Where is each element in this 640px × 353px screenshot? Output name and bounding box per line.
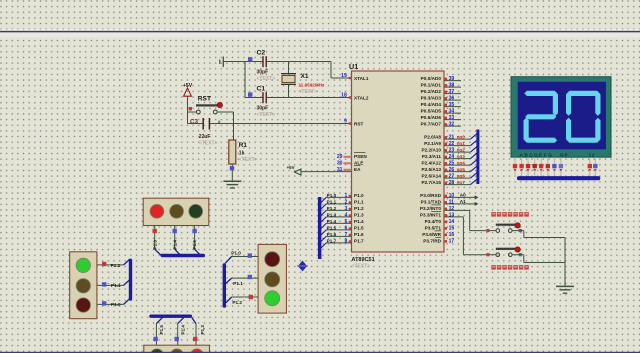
pin state squares TL-south [153, 337, 197, 341]
U1 pin 36 P0.3 stub [444, 96, 461, 102]
svg-text:12: 12 [589, 152, 596, 157]
display DS1 frame [511, 77, 611, 158]
display digit-select pins 1 2 [588, 157, 598, 176]
svg-text:P0.2/AD2: P0.2/AD2 [421, 89, 442, 94]
svg-text:P1.1: P1.1 [233, 281, 243, 286]
label S1 chinese red text [491, 212, 529, 217]
U1 pin 38 P0.1 stub [444, 83, 461, 89]
U1 pin 39 P0.0 stub [444, 76, 461, 82]
svg-text:39: 39 [449, 76, 455, 82]
wires TL-west to bus [97, 259, 130, 304]
U1 pin 1 P1.0 wire and label [321, 193, 352, 203]
ground (crystal circuit) [220, 57, 224, 68]
svg-text:11: 11 [449, 200, 455, 206]
svg-text:P0.3/AD3: P0.3/AD3 [421, 96, 442, 101]
svg-text:<TEXT>: <TEXT> [352, 264, 371, 270]
svg-text:RST: RST [354, 122, 364, 127]
traffic light TL-west body [70, 252, 97, 319]
junction R1 pin [230, 166, 234, 170]
svg-text:P2.3/A11: P2.3/A11 [422, 154, 442, 159]
wires TL-north to bus [155, 226, 201, 256]
svg-text:DP: DP [560, 152, 569, 157]
wire S2 to ground rail [512, 255, 565, 263]
svg-text:11.0592MHz: 11.0592MHz [299, 83, 325, 88]
wires TL-east to bus [225, 257, 258, 304]
svg-text:X1: X1 [301, 73, 309, 80]
wire button to RST node [217, 112, 233, 140]
wire R1 to ground [231, 164, 233, 181]
svg-text:28: 28 [449, 180, 455, 186]
svg-text:30pF: 30pF [257, 70, 269, 76]
svg-text:P1.6: P1.6 [354, 232, 364, 237]
U1 pins 29 30 31 PSEN ALE EA [337, 154, 352, 173]
capacitor C2 [257, 49, 276, 82]
svg-text:25: 25 [449, 161, 455, 167]
U1 pin 13 P3.3 wire to button S2 [444, 213, 486, 255]
svg-text:XTAL1: XTAL1 [354, 76, 369, 81]
svg-text:C3: C3 [190, 118, 198, 125]
svg-text:<TEXT>: <TEXT> [257, 76, 276, 82]
U1 pin 24 P2.3 stub, net label ng3 [444, 153, 477, 160]
U1 pin 12 P3.2 wire to button S1 [444, 206, 486, 230]
junction C2 pin [248, 57, 252, 61]
net labels TL-north P1.3 P1.4 P1.5 [152, 240, 197, 250]
capacitor C3 [190, 118, 221, 147]
button RST [189, 96, 223, 114]
svg-text:21: 21 [449, 135, 455, 141]
U1 pin 35 P0.4 stub [444, 102, 461, 108]
svg-text:P1.0: P1.0 [354, 193, 364, 198]
svg-text:P2.5/A13: P2.5/A13 [421, 167, 441, 172]
svg-text:AT89C51: AT89C51 [352, 257, 375, 263]
U1 pin 28 P2.7 stub, net label ng7 [444, 179, 477, 186]
svg-text:29: 29 [337, 154, 343, 160]
svg-text:P3.1/TXD: P3.1/TXD [421, 200, 442, 205]
U1 pin 21 P2.0 stub, net label ng0 [444, 133, 477, 140]
bus TL-north [161, 254, 205, 257]
svg-text:30: 30 [337, 161, 343, 167]
U1 pin 3 P1.2 wire and label [321, 206, 352, 216]
svg-text:P1.4: P1.4 [327, 219, 337, 224]
bus junction marker [297, 261, 308, 272]
bus P2 [476, 130, 479, 185]
svg-text:ng2: ng2 [457, 148, 466, 153]
wire C1 to XTAL2 [266, 97, 351, 99]
net labels TL-south P1.5 P1.4 P1.3 [159, 325, 205, 335]
svg-text:P1.2: P1.2 [232, 300, 242, 305]
U1 pin 22 P2.1 stub, net label ng1 [444, 140, 477, 147]
svg-text:5: 5 [344, 219, 347, 225]
traffic light TL-east body [258, 244, 286, 313]
svg-text:ng3: ng3 [457, 154, 466, 159]
svg-text:P0.7/AD7: P0.7/AD7 [421, 122, 442, 127]
svg-text:19: 19 [341, 73, 347, 79]
U1 pin 7 P1.6 wire and label [321, 232, 352, 242]
U1 pin 23 P2.2 stub, net label ng2 [444, 146, 477, 153]
svg-text:ng1: ng1 [457, 141, 466, 146]
svg-text:C2: C2 [257, 49, 266, 56]
svg-text:P2.2/A10: P2.2/A10 [421, 148, 441, 153]
svg-text:33: 33 [449, 115, 455, 121]
bus TL-west [129, 259, 132, 301]
svg-text:34: 34 [449, 109, 455, 115]
svg-text:ng0: ng0 [457, 135, 466, 140]
bus P1 [318, 197, 322, 259]
svg-text:P3.4/T0: P3.4/T0 [425, 219, 442, 224]
svg-text:2: 2 [344, 200, 347, 206]
svg-text:P1.2: P1.2 [327, 206, 337, 211]
svg-text:P1.7: P1.7 [354, 239, 364, 244]
svg-text:12: 12 [449, 206, 455, 212]
svg-text:ng6: ng6 [457, 174, 466, 179]
svg-text:ALE: ALE [354, 161, 363, 166]
display segment letters text [520, 152, 596, 157]
display segment pins [513, 157, 563, 176]
svg-text:38: 38 [449, 83, 455, 89]
U1 pin 16 P3.6 stub [445, 232, 455, 238]
wire ground branch down [245, 62, 263, 98]
svg-text:P1.7: P1.7 [327, 238, 337, 243]
svg-text:18: 18 [341, 93, 347, 99]
svg-text:P0.5/AD5: P0.5/AD5 [421, 109, 442, 114]
svg-text:P1.4: P1.4 [354, 219, 364, 224]
pin state squares TL-north [153, 229, 197, 233]
svg-text:<TEXT>: <TEXT> [299, 89, 318, 95]
svg-text:8: 8 [344, 239, 347, 245]
traffic light TL-south body [144, 345, 210, 353]
U1 pin 2 P1.1 wire and label [321, 199, 352, 209]
svg-text:P3.5/T1: P3.5/T1 [425, 226, 442, 231]
svg-text:<TEXT>: <TEXT> [199, 141, 218, 147]
svg-text:14: 14 [449, 219, 455, 225]
U1 pin 18 XTAL2 [341, 93, 351, 99]
svg-text:+5V: +5V [287, 165, 295, 170]
svg-text:ng4: ng4 [457, 161, 466, 166]
svg-text:4: 4 [344, 213, 347, 219]
capacitor C1 [257, 85, 276, 118]
pin state squares TL-east [248, 253, 253, 299]
U1 pin 6 P1.5 wire and label [321, 225, 352, 235]
svg-text:P1.1: P1.1 [327, 199, 337, 204]
svg-text:P0.6/AD6: P0.6/AD6 [421, 115, 442, 120]
svg-text:P1.1: P1.1 [354, 200, 364, 205]
svg-text:+5V: +5V [183, 83, 193, 89]
wire +5V to EA [301, 171, 351, 173]
svg-text:P3.0/RXD: P3.0/RXD [420, 193, 441, 198]
U1 pin 25 P2.4 stub, net label ng4 [444, 159, 477, 166]
svg-text:ABCDEFG: ABCDEFG [520, 152, 554, 157]
label S2 chinese red text [491, 265, 529, 270]
U1 pin 8 P1.7 wire and label [321, 238, 352, 248]
power +5V (EA pin) [287, 165, 301, 175]
svg-text:26: 26 [449, 167, 455, 173]
display digit 0 [566, 91, 601, 143]
U1 pin 9 RST [344, 119, 351, 125]
U1 pin 15 P3.5 stub [445, 226, 455, 232]
svg-text:XTAL2: XTAL2 [354, 96, 369, 101]
svg-text:P1.1: P1.1 [111, 283, 121, 288]
net labels TL-west P1.2 P1.1 P1.0 [111, 263, 121, 307]
svg-text:31: 31 [337, 167, 343, 173]
svg-text:P1.6: P1.6 [327, 232, 337, 237]
svg-text:P0.0/AD0: P0.0/AD0 [421, 76, 442, 81]
svg-text:10: 10 [449, 193, 455, 199]
button S1 (east-west stop) [486, 223, 522, 233]
svg-text:U1: U1 [349, 62, 358, 71]
svg-text:9: 9 [344, 119, 347, 125]
svg-text:P1.3: P1.3 [200, 325, 205, 335]
U1 pin names [354, 76, 442, 244]
svg-text:7: 7 [344, 232, 347, 238]
svg-text:1: 1 [344, 193, 347, 199]
svg-text:P2.0/A8: P2.0/A8 [424, 135, 441, 140]
U1 pin 27 P2.6 stub, net label ng6 [444, 172, 477, 179]
svg-text:22uF: 22uF [199, 134, 211, 140]
svg-text:24: 24 [449, 154, 455, 160]
ground (reset) [223, 181, 241, 188]
svg-text:P0.1/AD1: P0.1/AD1 [421, 83, 442, 88]
wire ground to C2 [223, 61, 262, 63]
U1 pin 10 P3.0 wire A0 [444, 193, 479, 200]
IC U1 AT89C51 body [349, 62, 444, 270]
svg-text:P1.0: P1.0 [231, 251, 241, 256]
U1 pin 4 P1.3 wire and label [321, 212, 352, 222]
junction C1 pin [248, 92, 252, 96]
svg-text:P1.5: P1.5 [327, 225, 337, 230]
svg-text:P1.5: P1.5 [159, 325, 164, 335]
svg-text:32: 32 [449, 122, 455, 128]
bus TL-south [149, 315, 192, 318]
svg-text:EA: EA [354, 167, 361, 172]
U1 pin 32 P0.7 stub [444, 122, 461, 128]
U1 pin 11 P3.1 wire A1 [444, 199, 479, 206]
svg-text:P1.3: P1.3 [354, 213, 364, 218]
svg-text:P1.3: P1.3 [327, 212, 337, 217]
svg-text:37: 37 [449, 89, 455, 95]
wire ground rail vertical [564, 238, 566, 287]
svg-text:16: 16 [449, 232, 455, 238]
power +5V (reset) [183, 83, 193, 112]
svg-text:P3.3/INT1: P3.3/INT1 [420, 213, 441, 218]
display digit 2 [524, 91, 559, 143]
svg-text:A0: A0 [460, 193, 466, 198]
wires TL-south [156, 318, 196, 347]
wire C2 to XTAL1 corner [266, 62, 351, 79]
svg-text:6: 6 [344, 226, 347, 232]
U1 pin 19 XTAL1 [341, 73, 351, 79]
svg-text:22: 22 [449, 141, 455, 147]
svg-text:<TEXT>: <TEXT> [257, 112, 276, 118]
U1 pin 34 P0.5 stub [444, 109, 461, 115]
wire C3 to RST pin [210, 123, 352, 125]
U1 pin 14 P3.4 stub [445, 219, 455, 225]
bus under display [517, 176, 600, 180]
svg-text:P3.2/INT0: P3.2/INT0 [420, 206, 441, 211]
svg-text:R1: R1 [239, 142, 248, 149]
svg-text:P1.4: P1.4 [172, 240, 177, 250]
ground (buttons) [556, 286, 574, 293]
resistor R1 [229, 140, 258, 164]
svg-text:3: 3 [344, 206, 347, 212]
svg-text:A1: A1 [460, 199, 466, 204]
svg-text:30pF: 30pF [257, 106, 269, 112]
U1 pin 26 P2.5 stub, net label ng5 [444, 166, 477, 173]
svg-text:P1.0: P1.0 [327, 193, 337, 198]
svg-text:RST: RST [198, 96, 211, 103]
svg-text:P1.2: P1.2 [354, 206, 364, 211]
svg-text:P1.0: P1.0 [111, 302, 121, 307]
svg-text:36: 36 [449, 96, 455, 102]
svg-text:P0.4/AD4: P0.4/AD4 [421, 102, 442, 107]
crystal X1 [281, 62, 325, 98]
svg-text:P1.3: P1.3 [152, 240, 157, 250]
svg-text:17: 17 [449, 239, 455, 245]
svg-text:P3.6/WR: P3.6/WR [422, 232, 441, 237]
bus TL-east [223, 263, 226, 307]
svg-text:13: 13 [449, 213, 455, 219]
U1 pin 17 P3.7 stub [445, 239, 455, 245]
svg-text:1k: 1k [239, 150, 245, 156]
svg-text:C1: C1 [257, 85, 266, 92]
svg-text:P1.2: P1.2 [111, 263, 121, 268]
svg-text:PSEN: PSEN [354, 154, 367, 159]
svg-text:27: 27 [449, 174, 455, 180]
svg-text:P1.4: P1.4 [181, 325, 186, 335]
svg-text:23: 23 [449, 148, 455, 154]
svg-text:ng5: ng5 [457, 167, 466, 172]
wire S1 to ground rail [512, 231, 565, 238]
svg-text:35: 35 [449, 102, 455, 108]
svg-text:P2.7/A15: P2.7/A15 [421, 180, 441, 185]
svg-text:<TEXT>: <TEXT> [239, 157, 258, 163]
svg-text:15: 15 [449, 226, 455, 232]
button S2 (north-south stop) [486, 247, 522, 257]
display inner screen [518, 82, 606, 150]
svg-text:P1.5: P1.5 [354, 226, 364, 231]
traffic light TL-north body [143, 198, 209, 225]
svg-text:P1.5: P1.5 [192, 240, 197, 250]
U1 pin 5 P1.4 wire and label [321, 219, 352, 229]
svg-text:P2.4/A12: P2.4/A12 [421, 161, 441, 166]
svg-text:P2.6/A14: P2.6/A14 [421, 174, 441, 179]
net labels TL-east P1.0 P1.1 P1.2 [231, 251, 243, 305]
wire +5V to button [188, 111, 197, 113]
U1 pin 33 P0.6 stub [444, 115, 461, 121]
wire +5V branch to C3 [188, 112, 203, 124]
U1 pin 37 P0.2 stub [444, 89, 461, 95]
svg-text:P2.1/A9: P2.1/A9 [424, 141, 441, 146]
pin state squares TL-west [102, 262, 106, 306]
svg-text:ng7: ng7 [457, 180, 466, 185]
svg-text:P3.7/RD: P3.7/RD [423, 239, 441, 244]
